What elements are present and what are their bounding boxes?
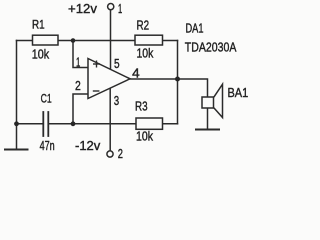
svg-text:2: 2	[75, 78, 81, 93]
svg-text:10k: 10k	[32, 47, 50, 62]
svg-text:BA1: BA1	[228, 86, 249, 100]
svg-text:4: 4	[132, 65, 140, 80]
svg-text:47n: 47n	[40, 138, 55, 153]
svg-text:5: 5	[114, 56, 120, 71]
svg-text:2: 2	[118, 147, 123, 161]
svg-text:+12v: +12v	[68, 1, 97, 16]
svg-text:DA1: DA1	[186, 22, 204, 36]
svg-text:R2: R2	[137, 18, 150, 32]
svg-text:R3: R3	[135, 100, 148, 114]
svg-text:-12v: -12v	[75, 139, 101, 153]
svg-text:10k: 10k	[136, 130, 154, 144]
svg-text:R1: R1	[32, 19, 45, 31]
svg-text:C1: C1	[41, 91, 52, 105]
svg-text:10k: 10k	[137, 47, 154, 61]
svg-text:1: 1	[76, 55, 80, 70]
svg-text:3: 3	[114, 93, 119, 108]
svg-text:1: 1	[118, 2, 122, 16]
svg-text:TDA2030A: TDA2030A	[185, 39, 237, 54]
